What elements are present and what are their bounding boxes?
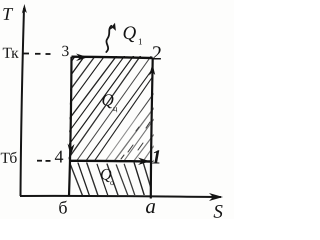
svg-text:a: a <box>145 194 156 218</box>
isotherm 4-1 line <box>71 160 151 163</box>
svg-text:Q: Q <box>102 90 114 109</box>
svg-text:Тб: Тб <box>0 150 17 167</box>
arrowhead on 4-1 pointing right <box>138 158 150 166</box>
dashed line Tk to point 3 <box>23 53 51 56</box>
T axis vertical line <box>21 8 25 196</box>
svg-text:1: 1 <box>138 37 143 47</box>
dashed line Tb to point 4 <box>37 160 51 162</box>
svg-text:б: б <box>58 197 67 217</box>
arrowhead on 1-2 pointing up <box>149 64 155 76</box>
S axis arrowhead <box>209 193 223 201</box>
isotherm 3-2 top edge <box>72 57 153 58</box>
svg-text:S: S <box>213 202 223 219</box>
T axis arrowhead <box>22 4 27 14</box>
adiabat 3-4 left edge <box>69 57 72 196</box>
svg-text:3: 3 <box>62 43 70 60</box>
svg-text:Q: Q <box>123 23 137 44</box>
hatching lower band Q0 area <box>71 163 154 196</box>
svg-text:ц: ц <box>113 104 118 113</box>
svg-text:Тк: Тк <box>3 45 20 62</box>
S axis horizontal line <box>20 196 221 197</box>
svg-text:2: 2 <box>152 43 162 65</box>
arrowhead on 3-4 pointing down <box>68 144 75 157</box>
arrowhead on 3-2 pointing right <box>76 54 88 62</box>
hatching main rectangle Q cycle area <box>0 55 230 163</box>
svg-text:1: 1 <box>151 147 161 169</box>
svg-text:4: 4 <box>54 146 63 166</box>
adiabat 2-1 right edge <box>151 58 153 199</box>
svg-text:о: о <box>110 178 114 187</box>
wavy heat arrow Q1 <box>106 26 111 52</box>
